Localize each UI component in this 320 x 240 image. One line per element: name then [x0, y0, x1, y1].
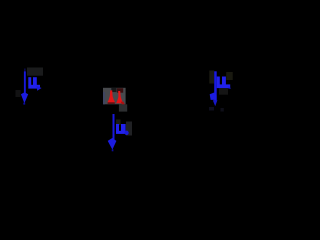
faint patch right of N2	[126, 122, 132, 136]
faint patch below N3	[219, 88, 228, 95]
bond to N2 (vertical, blue)	[113, 114, 115, 141]
HO box maroon patch	[117, 88, 123, 93]
faint clearing patch upper-right of N1	[27, 68, 43, 76]
bond to N1 (vertical, blue)	[24, 71, 26, 94]
red wedge right tail	[121, 102, 127, 108]
clearing patch below-right of HO	[119, 104, 127, 111]
HO box bluish left edge	[103, 92, 105, 104]
red wedge bond O1 left	[107, 90, 115, 102]
faint patch left of N3 bond	[209, 71, 214, 84]
label HO clearing box	[103, 88, 126, 105]
N3 bond taper tip	[213, 100, 218, 106]
faint mark below N3 tip right	[221, 108, 224, 112]
atom N3 label glyph	[217, 77, 232, 89]
red wedge left under-shadow	[108, 102, 115, 103]
faint patch left of N1 wedge	[16, 90, 21, 97]
HO box dark notch	[111, 88, 116, 92]
wedge bond at N1 (down arrow)	[21, 92, 28, 103]
faint patch right of N3	[226, 72, 233, 80]
wedge tail N2	[112, 149, 114, 151]
atom N1 label glyph	[28, 77, 41, 91]
bond to N3 (vertical, blue)	[214, 71, 217, 101]
wedge tail N1	[23, 103, 25, 105]
bond to N1 upper faint stub	[24, 69, 26, 72]
faint patch above N2 glyph	[116, 120, 121, 126]
red wedge bond O1 right	[116, 91, 123, 103]
wedge bump left of N3 bond	[210, 93, 217, 100]
wedge bond at N2 (down arrow)	[108, 138, 117, 150]
faint mark below N3 tip left	[209, 107, 214, 111]
atom N2 label glyph	[116, 124, 129, 135]
